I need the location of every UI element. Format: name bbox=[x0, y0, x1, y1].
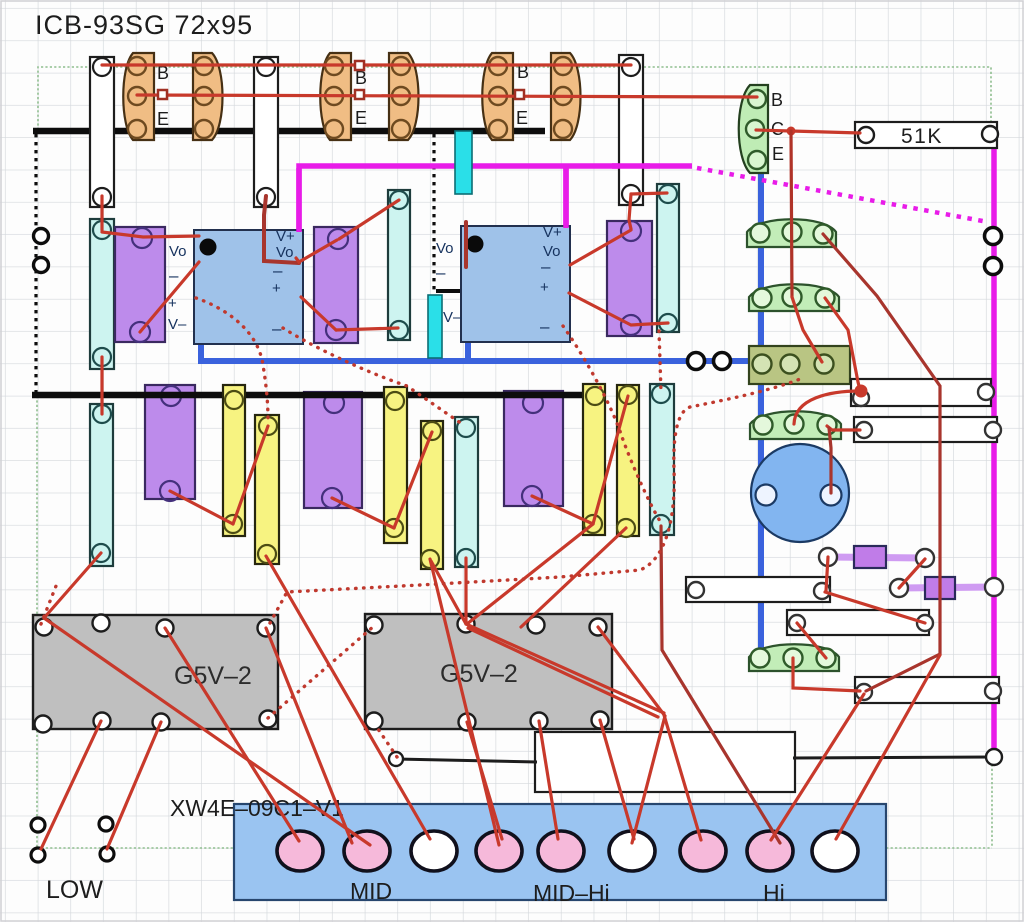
resistor RV2 lead bbox=[899, 587, 994, 588]
svg-text:Hi: Hi bbox=[763, 880, 785, 906]
wire base row bbox=[102, 63, 631, 66]
wire C1 to C14 bbox=[100, 357, 103, 414]
dotted wire U2 to C13 bbox=[563, 326, 660, 521]
blue V- rail: U1 drop + horizontal run bbox=[201, 329, 758, 361]
connector pin 7 bbox=[680, 831, 726, 871]
capacitor C8 (bright cyan) bbox=[428, 295, 442, 358]
wire RV2 to RV1 bbox=[899, 559, 925, 588]
wire U2 to C5 bottom bbox=[569, 293, 668, 325]
svg-text:V–: V– bbox=[443, 309, 462, 326]
resistor R5 (yellow) bbox=[583, 384, 605, 535]
wire TB4 to C15 bbox=[829, 428, 831, 493]
jumper J1 bbox=[90, 57, 114, 207]
wire RL1 to LOW1 bbox=[41, 721, 101, 849]
magenta drop to U2 V+ bbox=[563, 168, 569, 228]
dotted wire U1 minus to R4 bbox=[283, 328, 462, 424]
svg-text:–: – bbox=[169, 266, 179, 285]
svg-text:MID–Hi: MID–Hi bbox=[533, 880, 610, 906]
wire black bottom left bbox=[396, 759, 537, 762]
svg-text:51K: 51K bbox=[901, 125, 943, 148]
wire C3 to C4 bottom bbox=[336, 328, 398, 330]
wire R6 to RL2 bbox=[521, 528, 626, 627]
capacitor C3 (purple) bbox=[314, 227, 358, 343]
wire RL1 pin to conn1 bbox=[165, 628, 299, 841]
wire collector row bbox=[137, 95, 757, 97]
resistor R6 (yellow) bbox=[617, 385, 639, 536]
capacitor C6 (cyan) bbox=[657, 184, 679, 332]
capacitor C9 (purple) bbox=[145, 385, 195, 499]
dotted wire RL1 stub bbox=[41, 586, 56, 624]
svg-text:G5V–2: G5V–2 bbox=[174, 662, 252, 690]
wire RL1 to LOW4 bbox=[107, 722, 161, 849]
dotted wire long RL1 to TB3 bbox=[270, 379, 800, 623]
transistor Q1 half A bbox=[123, 53, 154, 140]
Q3 pad C mark bbox=[515, 90, 524, 99]
terminal block TB1 (green) bbox=[747, 219, 836, 247]
capacitor C10 (purple) bbox=[304, 392, 362, 508]
wire C3 to U1 lower bbox=[301, 297, 336, 330]
solder pad box bottom bbox=[535, 732, 795, 792]
capacitor C7 (bright cyan) bbox=[455, 131, 472, 194]
svg-text:ICB-93SG 72x95: ICB-93SG 72x95 bbox=[35, 10, 253, 40]
wire RV1 left stub bbox=[826, 557, 828, 591]
resistor R1 (yellow) bbox=[223, 385, 245, 536]
terminal block TB2 (green) bbox=[749, 284, 839, 311]
svg-text:+: + bbox=[540, 279, 549, 296]
standoff ring C2 bbox=[985, 258, 1002, 275]
svg-text:G5V–2: G5V–2 bbox=[440, 660, 518, 688]
capacitor C4 (cyan) bbox=[388, 190, 410, 340]
svg-text:E: E bbox=[157, 109, 169, 129]
blue stub U2 bbox=[465, 341, 471, 360]
wire TB2 to junction bbox=[825, 298, 860, 390]
wire J3 to C6 bbox=[631, 193, 667, 194]
connector pin 8 bbox=[747, 831, 793, 871]
board outline green dotted border left lower bbox=[36, 396, 38, 848]
dotted black net left bbox=[34, 134, 37, 394]
wire RL2 to conn5 bbox=[539, 721, 558, 839]
standoff ring LOW 1 bbox=[31, 818, 45, 832]
svg-text:Vo: Vo bbox=[169, 243, 187, 260]
wire R5 to R6 bbox=[593, 396, 628, 524]
Q1 pad C mark bbox=[158, 90, 167, 99]
wire RL2 internal 2 bbox=[468, 628, 658, 717]
wire J3 to C5 bbox=[629, 194, 631, 229]
wire C3 to U1 out bbox=[296, 240, 337, 262]
wire RL2 to conn6 bbox=[600, 720, 634, 839]
op-amp U1 bbox=[194, 230, 303, 344]
resistor R3 (yellow) bbox=[384, 387, 407, 543]
wire RL2 to conn4 bbox=[430, 559, 499, 845]
resistor R4 (yellow) bbox=[421, 421, 443, 569]
wire R3 to R4 bbox=[394, 432, 432, 528]
standoff ring B2 bbox=[714, 353, 731, 370]
wire RL1 cross diagonal bbox=[44, 618, 370, 845]
svg-text:E: E bbox=[516, 108, 528, 128]
U1 pin1 dot bbox=[200, 239, 217, 256]
standoff ring A2 bbox=[34, 258, 49, 273]
magenta net main bbox=[299, 166, 692, 231]
capacitor C15 (blue electrolytic top view) bbox=[751, 444, 849, 542]
dotted wire U1 plus to R2 bbox=[196, 298, 268, 422]
wire TB5 to W3 bbox=[793, 658, 860, 691]
svg-text:V+: V+ bbox=[276, 228, 295, 245]
wire Q4 C to 51K bbox=[756, 130, 860, 133]
dotted wire RL1 to mid bbox=[268, 626, 374, 718]
dotted black net center bbox=[432, 134, 435, 291]
svg-text:–: – bbox=[541, 257, 551, 276]
Q1 pads bbox=[128, 57, 213, 138]
Q3 pads bbox=[489, 57, 572, 138]
relay RL2 G5V-2 bbox=[365, 614, 612, 729]
magenta net over J3 bbox=[612, 163, 650, 169]
standoff ring A1 bbox=[34, 229, 49, 244]
connector pin 6 bbox=[609, 831, 655, 871]
jumper J3 bbox=[619, 55, 643, 205]
transistor Q2 half B bbox=[389, 53, 419, 140]
capacitor C11 (purple) bbox=[504, 391, 563, 506]
svg-text:–: – bbox=[272, 319, 282, 338]
blue jumper lower bbox=[695, 586, 762, 592]
jumper W3 bbox=[855, 677, 999, 703]
jumper W4 bbox=[787, 610, 929, 635]
wire J2 to U1 V+ bbox=[264, 196, 299, 263]
wire R1 to R2 bbox=[233, 426, 268, 524]
wire C14 to RL1 bbox=[44, 553, 101, 618]
connector pin 3 bbox=[411, 831, 457, 871]
junction dot bbox=[787, 127, 796, 136]
resistor RV2 body (purple) bbox=[925, 577, 955, 599]
wire C2 to U1 inverting bbox=[140, 262, 199, 332]
svg-text:–: – bbox=[436, 263, 446, 282]
svg-text:LOW: LOW bbox=[46, 876, 103, 904]
jumper W5 bbox=[686, 577, 830, 602]
resistor R2 (yellow) bbox=[255, 415, 279, 564]
wire C1 to U1 bbox=[102, 232, 199, 237]
board outline green dotted border bottom bbox=[37, 847, 992, 849]
blue vertical rail right bbox=[758, 168, 764, 658]
connector pin 9 bbox=[812, 831, 858, 871]
magenta branch to U2 bbox=[563, 166, 569, 228]
wire C12 to RL2 bbox=[464, 558, 467, 624]
dotted wire C5 to C13 bbox=[659, 331, 661, 392]
wire RL2 pin4 to conn6 bbox=[598, 627, 665, 843]
wire fan to conn7 bbox=[664, 715, 701, 840]
ground bus middle (black) bbox=[32, 392, 603, 399]
connector pin 5 bbox=[538, 831, 584, 871]
wire C13 down bbox=[661, 526, 780, 843]
wire U2 V+ stub bbox=[464, 222, 468, 267]
wire R5 to RL2 bbox=[467, 524, 593, 624]
wire RL1 corner to conn1 bbox=[266, 628, 352, 843]
standoff ring LOW 3 bbox=[99, 817, 113, 831]
capacitor C5 (purple) bbox=[607, 221, 652, 336]
terminal block TB3 (olive) bbox=[749, 346, 850, 384]
wire W5 to W4 bbox=[825, 592, 925, 623]
wire W4 to TB5 bbox=[797, 623, 826, 658]
standoff ring LOW 4 bbox=[100, 847, 114, 861]
magenta drop to U1 V+ bbox=[296, 168, 302, 232]
wire C11 to R5 bbox=[532, 496, 593, 524]
op-amp U2 bbox=[461, 226, 570, 342]
jumper W2 bbox=[854, 417, 997, 442]
svg-text:E: E bbox=[355, 108, 367, 128]
capacitor C14 (cyan bar left) bbox=[90, 404, 113, 566]
magenta dotted diagonal bbox=[697, 168, 988, 222]
wire TB2 to TB3 bbox=[792, 297, 822, 362]
Q2 pad B mark bbox=[355, 61, 364, 70]
U2 pin1 dot bbox=[467, 236, 484, 253]
Q2 pad C mark bbox=[355, 90, 364, 99]
wire C4 to C3 bbox=[339, 200, 399, 239]
ground bus top (black) bbox=[33, 128, 545, 135]
pad circle black wire right bbox=[986, 749, 1002, 765]
board outline green dotted border right lower bbox=[991, 760, 993, 848]
junction dot W1 bbox=[855, 385, 868, 398]
connector XW4E (blue) bbox=[234, 804, 886, 900]
jumper J2 bbox=[254, 57, 278, 207]
dotted wire pad to RL2 bbox=[376, 726, 397, 757]
svg-text:Vo: Vo bbox=[436, 240, 454, 257]
connector pin 4 bbox=[476, 831, 522, 871]
svg-text:MID: MID bbox=[350, 878, 392, 904]
transistor Q3 half A bbox=[482, 53, 513, 140]
jumper W1 bbox=[851, 379, 991, 406]
svg-text:+: + bbox=[272, 280, 281, 297]
resistor 51K bbox=[855, 122, 997, 148]
wire junction to TB4 bbox=[794, 391, 860, 424]
transistor Q3 half B bbox=[551, 53, 581, 140]
terminal block TB4 (green) bbox=[750, 411, 841, 439]
wire C5 to U2 out bbox=[570, 230, 631, 265]
board outline green dotted border top bbox=[38, 67, 991, 130]
connector pin 2 bbox=[344, 831, 390, 871]
resistor RV1 body (purple) bbox=[854, 546, 886, 568]
standoff ring B1 bbox=[688, 353, 705, 370]
wire TB4 to W2 bbox=[827, 426, 860, 430]
wire C10 to R3 bbox=[332, 498, 394, 528]
wire J1 to C1 bbox=[100, 196, 103, 230]
svg-text:–: – bbox=[540, 317, 550, 336]
wire RL2 to conn4b bbox=[467, 722, 502, 839]
wire R4 to RL2 bbox=[431, 561, 466, 624]
wire R2 to conn3 bbox=[266, 556, 430, 839]
standoff ring LOW 2 bbox=[31, 848, 45, 862]
wire Q4 C down to TB2 bbox=[791, 131, 792, 297]
capacitor C1 (cyan) bbox=[90, 219, 114, 369]
wire black bottom right bbox=[793, 757, 993, 758]
connector pin 1 bbox=[277, 831, 323, 871]
wire C9 to R1 bbox=[170, 491, 233, 524]
terminal block TB5 (green bottom) bbox=[749, 644, 839, 671]
svg-text:E: E bbox=[772, 144, 784, 164]
svg-text:V–: V– bbox=[168, 316, 187, 333]
svg-text:V+: V+ bbox=[543, 224, 562, 241]
transistor Q1 half B bbox=[193, 53, 223, 140]
capacitor C2 (purple) bbox=[115, 227, 165, 342]
svg-text:Vo: Vo bbox=[276, 244, 294, 261]
capacitor C13 (cyan bar) bbox=[650, 384, 674, 535]
wire TB1 to W1 junction bbox=[823, 234, 940, 691]
wire W3 to conn8 bbox=[771, 694, 864, 840]
svg-text:B: B bbox=[771, 90, 783, 110]
resistor RV1 lead bbox=[828, 557, 925, 558]
magenta vertical right rail bbox=[991, 139, 997, 749]
wire black V- stub bbox=[436, 289, 471, 293]
wire red vert to conn9 bbox=[836, 655, 940, 839]
capacitor C12 (cyan bar) bbox=[455, 417, 478, 567]
Q4 pads bbox=[746, 90, 766, 169]
Q2 pads bbox=[325, 57, 410, 138]
relay RL1 G5V-2 bbox=[33, 615, 278, 729]
transistor Q4 body (green) bbox=[739, 85, 768, 173]
transistor Q2 half A bbox=[320, 53, 351, 140]
wire RL2 internal 1 bbox=[466, 624, 664, 713]
standoff ring C1 bbox=[985, 228, 1002, 245]
pad circle black wire left bbox=[389, 752, 403, 766]
